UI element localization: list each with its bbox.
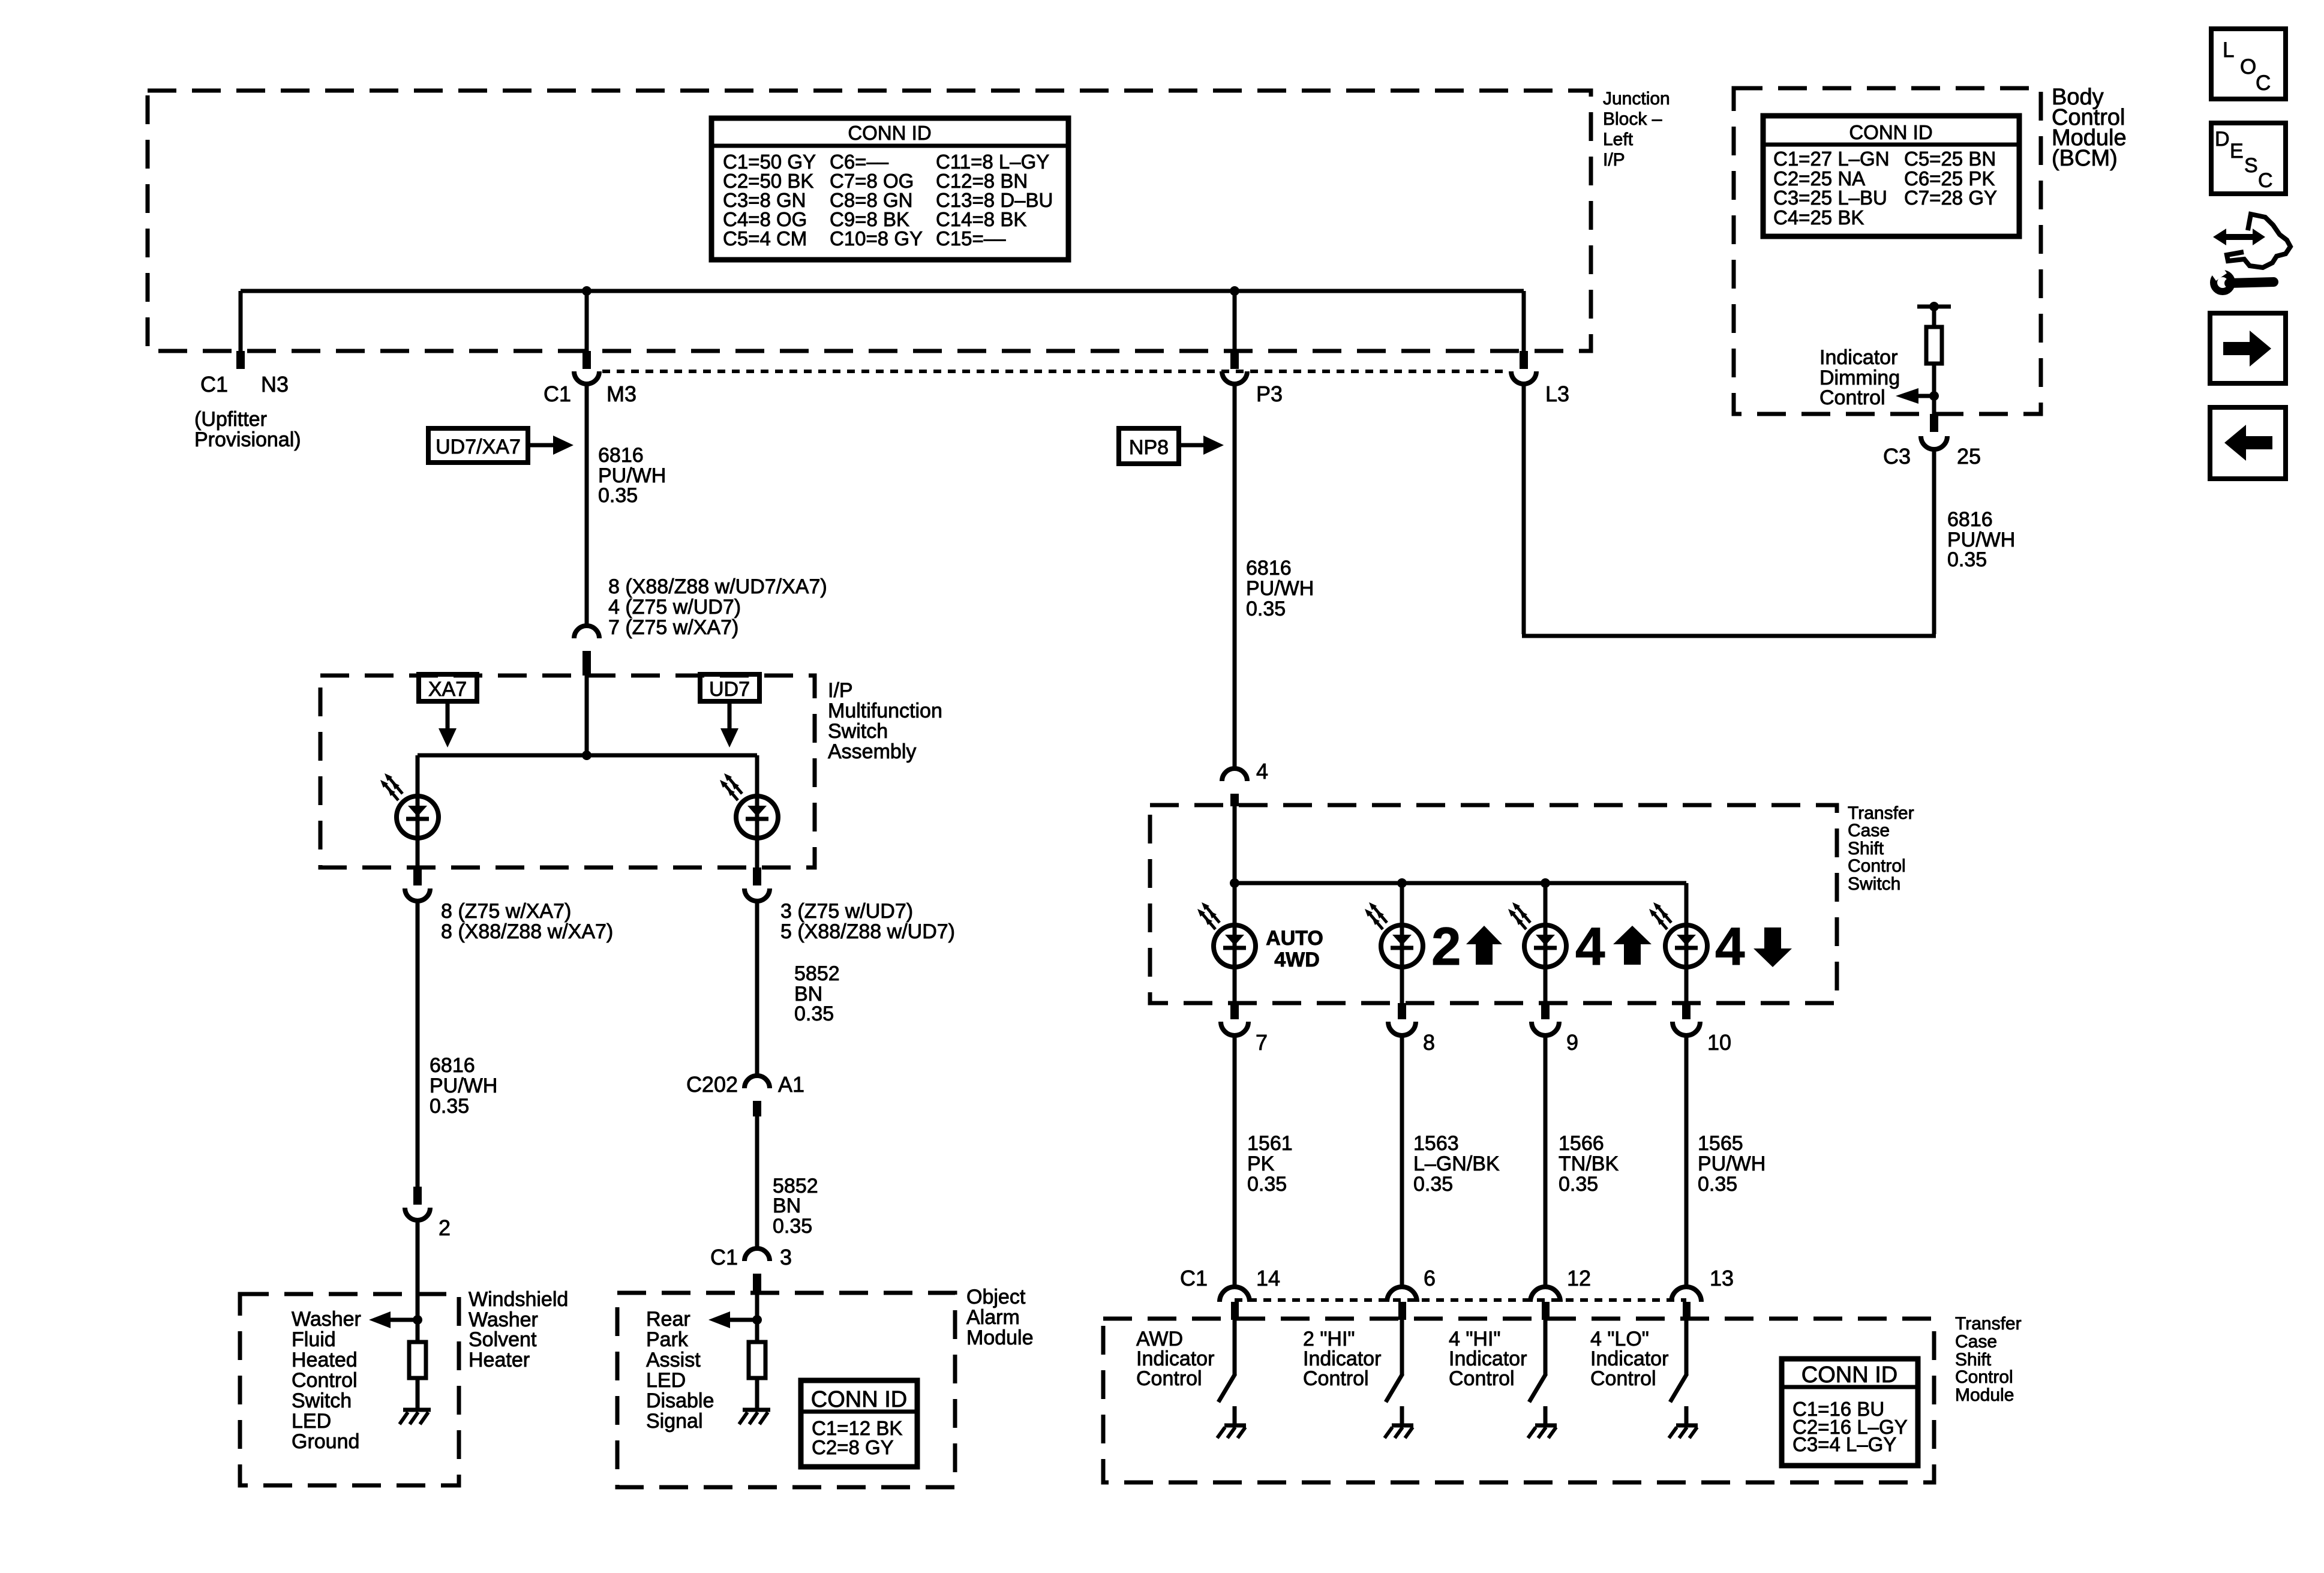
- svg-text:UD7/XA7: UD7/XA7: [436, 436, 521, 458]
- svg-text:Switch: Switch: [1848, 874, 1900, 894]
- svg-text:Park: Park: [646, 1328, 689, 1351]
- svg-text:P3: P3: [1256, 382, 1283, 406]
- label 4 down: [1715, 916, 1792, 976]
- ground 2 HI switch: [1385, 1425, 1413, 1438]
- svg-text:C5=4 CM: C5=4 CM: [723, 227, 807, 250]
- label AWD indicator control: [1136, 1328, 1214, 1390]
- icon LOC: [2211, 29, 2286, 99]
- svg-text:NP8: NP8: [1129, 436, 1169, 459]
- label box XA7: [419, 674, 477, 748]
- connector into I/P switch assembly: [574, 626, 599, 676]
- svg-text:Heater: Heater: [469, 1349, 530, 1371]
- svg-text:Disable: Disable: [646, 1389, 714, 1412]
- svg-text:Control: Control: [1136, 1367, 1202, 1390]
- svg-text:C7=28 GY: C7=28 GY: [1904, 187, 1997, 209]
- svg-text:3: 3: [780, 1245, 792, 1269]
- svg-text:CONN ID: CONN ID: [1801, 1362, 1897, 1388]
- svg-text:3 (Z75 w/UD7): 3 (Z75 w/UD7): [780, 900, 913, 923]
- label 2 up: [1431, 916, 1502, 976]
- pin list label: [608, 575, 827, 639]
- ground rear park: [739, 1410, 770, 1424]
- wire L3 drop: [1522, 291, 1526, 351]
- wire resistor to ground: [416, 1378, 420, 1409]
- svg-text:AUTO: AUTO: [1266, 927, 1323, 950]
- svg-text:5852: 5852: [794, 962, 840, 985]
- wire label 5852 BN 0.35 (lower): [773, 1175, 818, 1238]
- svg-text:S: S: [2244, 154, 2258, 177]
- ground AWD switch: [1217, 1425, 1246, 1438]
- svg-text:Signal: Signal: [646, 1410, 703, 1433]
- rear park label column: [646, 1308, 714, 1433]
- pin label right: [780, 900, 955, 943]
- dotted harness line bottom: [1235, 1298, 1686, 1302]
- svg-text:0.35: 0.35: [1698, 1173, 1737, 1196]
- svg-text:0.35: 0.35: [598, 484, 638, 507]
- svg-text:C202: C202: [686, 1072, 738, 1097]
- svg-text:8 (X88/Z88 w/UD7/XA7): 8 (X88/Z88 w/UD7/XA7): [608, 575, 827, 598]
- svg-text:8 (X88/Z88 w/XA7): 8 (X88/Z88 w/XA7): [441, 920, 613, 943]
- wire washer branch: [416, 901, 420, 1187]
- label AUTO 4WD: [1266, 927, 1323, 971]
- svg-text:PU/WH: PU/WH: [430, 1074, 497, 1097]
- svg-text:C: C: [2256, 71, 2271, 95]
- svg-text:CONN ID: CONN ID: [848, 122, 931, 144]
- ground washer: [400, 1410, 431, 1424]
- switch 4 HI indicator control: [1529, 1320, 1546, 1424]
- svg-text:Case: Case: [1955, 1332, 1997, 1352]
- svg-text:LED: LED: [292, 1410, 331, 1433]
- svg-text:(Upfitter: (Upfitter: [194, 408, 267, 431]
- svg-text:4WD: 4WD: [1274, 948, 1320, 971]
- svg-text:I/P: I/P: [828, 679, 853, 702]
- svg-text:C10=8 GY: C10=8 GY: [830, 227, 923, 250]
- windshield washer solvent heater box: [240, 1294, 459, 1485]
- label 4 LO indicator control: [1590, 1328, 1668, 1390]
- svg-text:BN: BN: [773, 1194, 801, 1217]
- wire M3 drop: [585, 291, 589, 351]
- indicator dimming control label: [1819, 346, 1900, 409]
- svg-text:C: C: [2258, 169, 2273, 192]
- svg-text:6816: 6816: [430, 1054, 475, 1077]
- connector pin 2: [405, 1187, 451, 1240]
- wire rear park branch: [755, 901, 759, 1075]
- transfer switch label: [1848, 803, 1914, 894]
- connector C1 pin 14: [1180, 1266, 1280, 1320]
- connector pin 10: [1673, 1003, 1731, 1055]
- body control module box: [1734, 88, 2041, 414]
- svg-text:13: 13: [1710, 1266, 1734, 1290]
- connector pin 12: [1530, 1266, 1591, 1320]
- node M3 junction: [582, 286, 591, 296]
- svg-text:Rear: Rear: [646, 1308, 690, 1331]
- svg-text:L: L: [2223, 38, 2234, 62]
- svg-text:7: 7: [1256, 1030, 1268, 1055]
- svg-text:7 (Z75 w/XA7): 7 (Z75 w/XA7): [608, 616, 738, 639]
- label box UD7: [700, 674, 759, 748]
- svg-text:Switch: Switch: [828, 720, 888, 743]
- wire N3 drop: [239, 291, 243, 351]
- wires to module: [1235, 1035, 1686, 1287]
- connector pin 6: [1387, 1266, 1436, 1320]
- transfer case shift control switch box: [1150, 805, 1837, 1003]
- svg-text:N3: N3: [261, 372, 289, 397]
- svg-text:C4=25 BK: C4=25 BK: [1773, 206, 1864, 229]
- wire C3 to L3 elbow: [1522, 386, 1936, 636]
- LED XA7 illumination: [380, 773, 439, 838]
- washer label column: [292, 1308, 361, 1453]
- svg-text:Transfer: Transfer: [1955, 1314, 2022, 1334]
- label box NP8: [1119, 428, 1224, 464]
- svg-text:O: O: [2240, 55, 2256, 79]
- svg-text:1561: 1561: [1247, 1132, 1293, 1155]
- svg-text:4: 4: [1256, 759, 1268, 784]
- svg-text:2: 2: [439, 1215, 451, 1240]
- I/P multifunction switch assembly box: [320, 676, 815, 867]
- svg-text:25: 25: [1957, 444, 1981, 469]
- svg-text:5 (X88/Z88 w/UD7): 5 (X88/Z88 w/UD7): [780, 920, 955, 943]
- label 4 HI indicator control: [1449, 1328, 1527, 1390]
- resistor indicator dimming (in BCM): [1917, 302, 1951, 414]
- svg-text:C1: C1: [200, 372, 228, 397]
- svg-text:6816: 6816: [1947, 508, 1993, 531]
- wire M3 to I/P switch: [585, 384, 589, 625]
- svg-text:Control: Control: [1590, 1367, 1656, 1390]
- svg-text:C5=25 BN: C5=25 BN: [1904, 148, 1996, 170]
- svg-text:Junction: Junction: [1603, 89, 1670, 109]
- object alarm CONN ID table: [801, 1380, 917, 1467]
- svg-text:TN/BK: TN/BK: [1559, 1152, 1619, 1175]
- icon arrow right: [2210, 313, 2286, 383]
- wire resistor to ground: [755, 1378, 759, 1409]
- node indicator dimming control: [1896, 388, 1939, 404]
- svg-text:UD7: UD7: [709, 678, 750, 701]
- svg-text:Module: Module: [966, 1326, 1034, 1349]
- svg-text:0.35: 0.35: [1947, 548, 1987, 571]
- svg-text:Control: Control: [1819, 386, 1885, 409]
- switch 2 HI indicator control: [1386, 1320, 1403, 1424]
- connector C1 N3: [194, 351, 301, 451]
- label box UD7/XA7: [428, 428, 574, 463]
- BCM label: [2052, 85, 2127, 171]
- dotted harness line top: [602, 370, 1509, 373]
- svg-text:Object: Object: [966, 1286, 1026, 1308]
- svg-text:6: 6: [1424, 1266, 1436, 1290]
- svg-text:I/P: I/P: [1603, 150, 1625, 170]
- ground 4 LO switch: [1669, 1425, 1698, 1438]
- object alarm label: [966, 1286, 1034, 1349]
- svg-text:L3: L3: [1545, 382, 1569, 406]
- wire label 1566 TN/BK 0.35: [1559, 1132, 1619, 1196]
- svg-text:6816: 6816: [598, 444, 644, 467]
- svg-text:Provisional): Provisional): [194, 428, 301, 451]
- svg-text:M3: M3: [606, 382, 636, 406]
- icon vehicle wrench: [2211, 214, 2290, 292]
- svg-text:4 (Z75 w/UD7): 4 (Z75 w/UD7): [608, 596, 741, 619]
- LED AUTO 4WD: [1197, 902, 1256, 967]
- resistor washer LED: [409, 1342, 426, 1378]
- transfer case shift control module box: [1103, 1319, 1934, 1482]
- svg-text:PU/WH: PU/WH: [1246, 577, 1314, 600]
- rear park node and arrow: [708, 1294, 762, 1342]
- svg-text:Washer: Washer: [292, 1308, 361, 1331]
- svg-text:1565: 1565: [1698, 1132, 1743, 1155]
- wire into washer heater: [416, 1220, 420, 1320]
- connector pin 8: [1388, 1003, 1435, 1055]
- connector pin 9: [1532, 1003, 1578, 1055]
- junction block - left I/P box: [148, 91, 1591, 351]
- svg-text:9: 9: [1566, 1030, 1578, 1055]
- wire label 6816 PU/WH 0.35 (washer): [430, 1054, 497, 1118]
- ground 4 HI switch: [1528, 1425, 1557, 1438]
- svg-text:E: E: [2230, 140, 2244, 163]
- wire label 6816 PU/WH 0.35 (BCM side): [1947, 508, 2015, 571]
- svg-text:Assembly: Assembly: [828, 740, 916, 763]
- svg-text:C1: C1: [710, 1245, 738, 1269]
- svg-text:A1: A1: [778, 1072, 804, 1097]
- svg-text:1566: 1566: [1559, 1132, 1604, 1155]
- svg-text:10: 10: [1707, 1030, 1731, 1055]
- svg-text:C15=––: C15=––: [936, 227, 1006, 250]
- svg-text:CONN ID: CONN ID: [1849, 121, 1932, 143]
- node P3 junction: [1230, 286, 1239, 296]
- svg-text:2: 2: [1431, 916, 1461, 976]
- svg-text:14: 14: [1256, 1266, 1280, 1290]
- transfer module label: [1955, 1314, 2022, 1405]
- svg-text:Windshield: Windshield: [469, 1288, 568, 1311]
- svg-text:0.35: 0.35: [1413, 1173, 1453, 1196]
- svg-text:C1: C1: [1180, 1266, 1208, 1290]
- svg-text:Block –: Block –: [1603, 109, 1662, 129]
- connector C3 pin 25 (BCM): [1883, 414, 1981, 469]
- connector P3: [1222, 351, 1283, 406]
- switch AWD indicator control: [1218, 1320, 1235, 1424]
- junction block label: [1603, 89, 1670, 170]
- wire label 6816 PU/WH 0.35 (M3): [598, 444, 666, 507]
- svg-text:0.35: 0.35: [794, 1002, 834, 1025]
- svg-text:Case: Case: [1848, 821, 1890, 840]
- label 4 up: [1575, 916, 1652, 976]
- LED UD7 illumination: [720, 773, 778, 838]
- connector pin 4: [1222, 759, 1268, 806]
- svg-text:0.35: 0.35: [430, 1095, 469, 1118]
- svg-text:0.35: 0.35: [1246, 598, 1286, 620]
- svg-text:LED: LED: [646, 1369, 686, 1392]
- svg-text:12: 12: [1567, 1266, 1591, 1290]
- wires LEDs to box edge: [418, 838, 757, 867]
- connector pin 7: [1221, 1003, 1268, 1055]
- connector L3: [1511, 351, 1569, 406]
- svg-text:C1=27 L–GN: C1=27 L–GN: [1773, 148, 1890, 170]
- object alarm module box: [617, 1293, 955, 1487]
- icon DESC: [2211, 123, 2286, 194]
- connector XA7 pin 8: [405, 867, 430, 901]
- connector C1 M3: [544, 351, 636, 406]
- svg-text:1563: 1563: [1413, 1132, 1459, 1155]
- wire P3 to transfer switch: [1233, 384, 1237, 768]
- svg-text:Ground: Ground: [292, 1430, 359, 1453]
- junction CONN ID table: [711, 118, 1068, 260]
- wire label 1563 L-GN/BK 0.35: [1413, 1132, 1500, 1196]
- washer internal node and arrow: [369, 1294, 422, 1342]
- svg-text:0.35: 0.35: [1247, 1173, 1287, 1196]
- svg-text:Control: Control: [1848, 856, 1906, 876]
- svg-text:Alarm: Alarm: [966, 1306, 1020, 1329]
- svg-text:C1: C1: [544, 382, 571, 406]
- svg-text:Solvent: Solvent: [469, 1328, 537, 1351]
- svg-text:C3=25 L–BU: C3=25 L–BU: [1773, 187, 1887, 209]
- wires LEDs to switch box edge: [1235, 967, 1686, 1003]
- windshield washer label: [469, 1288, 568, 1371]
- svg-text:Fluid: Fluid: [292, 1328, 336, 1351]
- wire label 5852 BN 0.35 (upper): [794, 962, 840, 1025]
- LED 4 HI: [1508, 902, 1566, 967]
- connector C202 A1: [686, 1072, 804, 1116]
- svg-text:C3=4 L–GY: C3=4 L–GY: [1792, 1433, 1896, 1455]
- label 2 HI indicator control: [1303, 1328, 1381, 1390]
- svg-text:Module: Module: [1955, 1385, 2014, 1405]
- connector pin 13: [1671, 1266, 1734, 1320]
- icon arrow left: [2210, 407, 2286, 479]
- svg-text:0.35: 0.35: [1559, 1173, 1598, 1196]
- svg-text:4: 4: [1715, 916, 1745, 976]
- svg-text:4: 4: [1575, 916, 1605, 976]
- svg-text:Multifunction: Multifunction: [828, 700, 942, 722]
- pin label left: [441, 900, 613, 943]
- svg-text:Control: Control: [1955, 1367, 2013, 1387]
- svg-text:L–GN/BK: L–GN/BK: [1413, 1152, 1500, 1175]
- svg-text:Control: Control: [292, 1369, 358, 1392]
- wire label 6816 PU/WH 0.35 (P3): [1246, 557, 1314, 620]
- module CONN ID table: [1782, 1359, 1918, 1466]
- wire P3 drop: [1233, 291, 1237, 351]
- svg-text:8: 8: [1423, 1030, 1435, 1055]
- svg-text:D: D: [2215, 128, 2230, 151]
- svg-text:XA7: XA7: [428, 678, 467, 701]
- connector UD7 pin: [744, 867, 770, 901]
- svg-text:CONN ID: CONN ID: [811, 1387, 907, 1412]
- svg-text:Control: Control: [1303, 1367, 1369, 1390]
- svg-text:6816: 6816: [1246, 557, 1292, 580]
- svg-text:Control: Control: [1449, 1367, 1515, 1390]
- svg-text:Indicator: Indicator: [1819, 346, 1897, 369]
- svg-text:PU/WH: PU/WH: [1698, 1152, 1765, 1175]
- svg-text:Assist: Assist: [646, 1349, 701, 1371]
- I/P multifunction label: [828, 679, 942, 763]
- wire inside I/P box: [418, 676, 757, 798]
- svg-text:0.35: 0.35: [773, 1215, 812, 1238]
- switch 4 LO indicator control: [1670, 1320, 1687, 1424]
- LED 2 HI: [1365, 902, 1423, 967]
- svg-text:Heated: Heated: [292, 1349, 358, 1371]
- svg-text:(BCM): (BCM): [2052, 146, 2118, 171]
- connector C1 pin 3: [710, 1245, 792, 1294]
- wire switch bus: [1235, 806, 1686, 925]
- wire main bus: [241, 289, 1524, 293]
- svg-text:Left: Left: [1603, 130, 1634, 149]
- node I/P bus junction: [582, 751, 591, 760]
- LED 4 LO: [1649, 902, 1707, 967]
- svg-text:C3: C3: [1883, 444, 1911, 469]
- wire C202 to object alarm: [755, 1116, 759, 1248]
- svg-text:Switch: Switch: [292, 1389, 352, 1412]
- wire label 1565 PU/WH 0.35: [1698, 1132, 1765, 1196]
- wire label 1561 PK 0.35: [1247, 1132, 1293, 1196]
- svg-text:PK: PK: [1247, 1152, 1275, 1175]
- svg-text:8 (Z75 w/XA7): 8 (Z75 w/XA7): [441, 900, 571, 923]
- BCM CONN ID table: [1763, 116, 2019, 236]
- svg-text:C2=8 GY: C2=8 GY: [812, 1436, 894, 1458]
- node bus junctions: [1230, 878, 1550, 888]
- resistor rear park LED: [749, 1342, 765, 1378]
